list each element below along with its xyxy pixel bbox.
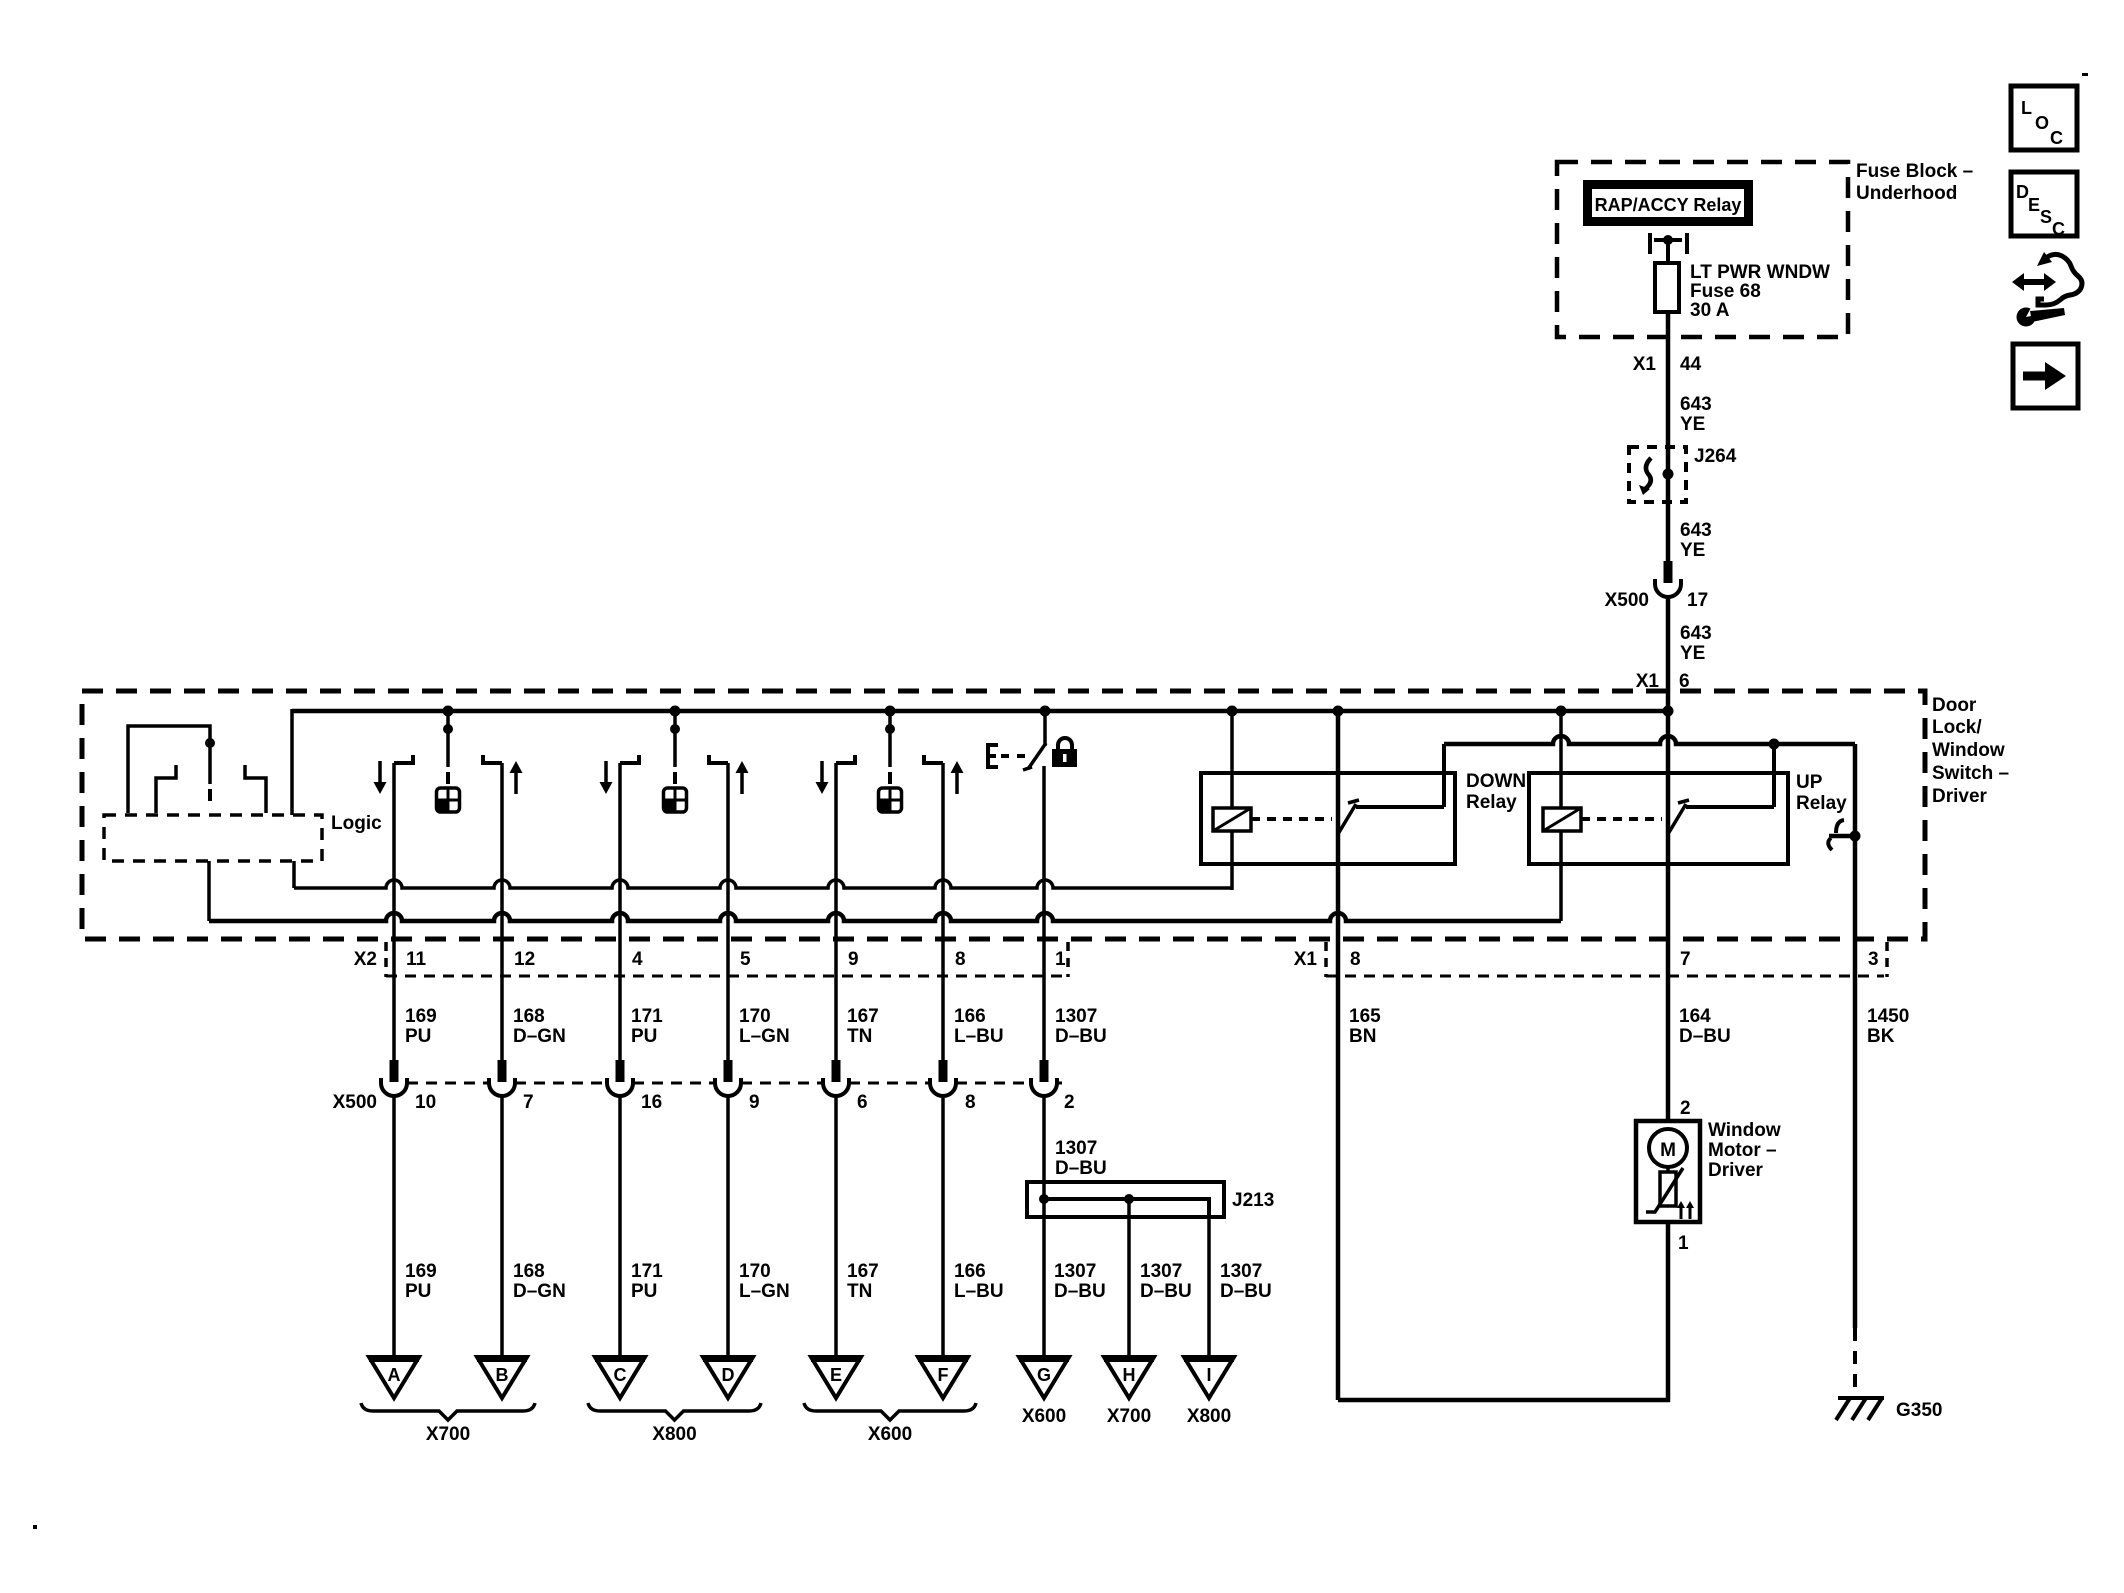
svg-text:1307: 1307 — [1140, 1261, 1182, 1282]
svg-text:E: E — [830, 1365, 842, 1385]
relay UP link (dashed) — [1581, 817, 1662, 821]
svg-text:I: I — [1206, 1365, 1211, 1385]
connector X500 pin 17 — [1605, 561, 1709, 611]
svg-text:LT PWR WNDW: LT PWR WNDW — [1690, 262, 1830, 283]
svg-text:1: 1 — [1055, 949, 1066, 970]
svg-text:X700: X700 — [1107, 1406, 1151, 1427]
svg-text:E: E — [2028, 195, 2040, 215]
switch window E/F down contact — [836, 755, 855, 763]
labels X600 X700 X800 under G H I — [1022, 1406, 1231, 1427]
svg-text:12: 12 — [514, 949, 535, 970]
svg-text:Driver: Driver — [1708, 1160, 1764, 1181]
svg-text:D: D — [722, 1365, 735, 1385]
terminal triangle A — [369, 1357, 419, 1398]
svg-text:L–BU: L–BU — [954, 1281, 1004, 1302]
terminal triangle F — [918, 1357, 968, 1398]
svg-text:166: 166 — [954, 1261, 986, 1282]
relay UP box — [1529, 773, 1788, 864]
svg-text:D–GN: D–GN — [513, 1026, 566, 1047]
labels wires 169 PU / 168 D-GN / 171 PU / 170 L-GN / 167 TN / 166 L-BU / 1307 D-BU — [405, 1006, 1107, 1047]
relay DOWN box — [1201, 773, 1455, 864]
wire 643 YE fuse to J264 — [1666, 312, 1671, 561]
wire switch C/D down output — [618, 763, 622, 1060]
relay UP contact blade — [1668, 800, 1689, 834]
svg-text:168: 168 — [513, 1006, 545, 1027]
svg-text:44: 44 — [1680, 354, 1702, 375]
splice J264 — [1629, 446, 1737, 502]
svg-text:D–BU: D–BU — [1679, 1026, 1731, 1047]
svg-text:7: 7 — [1680, 949, 1691, 970]
brace X600 — [804, 1403, 976, 1445]
wire 1307 D-BU J213 to triangle H — [1127, 1199, 1131, 1357]
arrow up — [736, 761, 749, 794]
svg-text:Motor –: Motor – — [1708, 1140, 1777, 1161]
connector X1 row — [1294, 942, 1887, 977]
wire DOWN common (165 BN) from bus through pivot to X1-8 — [1333, 706, 1344, 1401]
svg-text:Window: Window — [1708, 1120, 1781, 1141]
relay UP contact to riser — [1686, 744, 1774, 807]
icon DESC — [2011, 172, 2077, 239]
svg-text:TN: TN — [847, 1026, 872, 1047]
svg-text:7: 7 — [523, 1092, 534, 1113]
wire bus to logic — [290, 709, 294, 815]
label DOWN Relay — [1466, 771, 1526, 813]
svg-text:X1: X1 — [1294, 949, 1318, 970]
relay UP coil — [1543, 808, 1581, 831]
svg-text:Relay: Relay — [1796, 793, 1847, 814]
svg-text:Lock/: Lock/ — [1932, 717, 1982, 738]
svg-text:D–BU: D–BU — [1055, 1026, 1107, 1047]
svg-text:PU: PU — [631, 1281, 657, 1302]
arrow up — [510, 761, 523, 794]
wire DOWN coil to logic line — [1230, 831, 1234, 890]
svg-text:643: 643 — [1680, 623, 1712, 644]
label UP Relay — [1796, 772, 1847, 814]
svg-text:C: C — [2050, 128, 2063, 148]
label wire 1307 D-BU (above J213) — [1055, 1138, 1107, 1179]
wire 1307 D-BU X500-2 to J213 and triangle G — [1042, 1096, 1046, 1357]
terminal triangle E — [811, 1357, 861, 1398]
stray dot bottom left — [33, 1525, 37, 1529]
svg-text:Driver: Driver — [1932, 786, 1988, 807]
svg-text:M: M — [1660, 1140, 1676, 1161]
svg-text:DOWN: DOWN — [1466, 771, 1526, 792]
svg-text:PU: PU — [405, 1281, 431, 1302]
svg-text:1: 1 — [1678, 1233, 1689, 1254]
svg-text:9: 9 — [749, 1092, 760, 1113]
wire lock switch output — [1042, 766, 1046, 1060]
wire UP coil to logic line — [1559, 831, 1563, 921]
wire switch E/F down output — [834, 763, 838, 1060]
switch lock (window lockout) — [988, 706, 1051, 771]
relay DOWN link (dashed) — [1251, 817, 1332, 821]
svg-text:11: 11 — [406, 949, 427, 970]
connector X2 row — [354, 942, 1068, 977]
svg-text:1450: 1450 — [1867, 1006, 1909, 1027]
svg-text:Switch –: Switch – — [1932, 763, 2009, 784]
wire switch E/F up output — [941, 763, 945, 1060]
svg-text:TN: TN — [847, 1281, 872, 1302]
wire logic output 2 (to UP relay coil) — [209, 861, 1561, 921]
wires A-F from X500 to terminals — [394, 1096, 943, 1357]
svg-text:167: 167 — [847, 1006, 879, 1027]
label wire 643 YE (lower) — [1680, 623, 1712, 664]
connector X2 pin labels 11 12 4 5 9 8 1 — [406, 949, 1066, 970]
svg-text:RAP/ACCY Relay: RAP/ACCY Relay — [1595, 195, 1742, 215]
svg-text:YE: YE — [1680, 540, 1705, 561]
svg-text:8: 8 — [955, 949, 966, 970]
svg-text:X2: X2 — [354, 949, 377, 970]
connector X1 pin labels 8 7 3 — [1350, 949, 1879, 970]
terminal triangle G — [1019, 1357, 1069, 1398]
svg-text:B: B — [496, 1365, 509, 1385]
svg-text:X700: X700 — [426, 1424, 470, 1445]
svg-text:10: 10 — [415, 1092, 436, 1113]
wire relay commons to ground riser — [1444, 736, 1855, 750]
stray mark top right — [2082, 73, 2088, 76]
fuse tap bracket from relay — [1650, 233, 1687, 254]
arrow up — [951, 761, 964, 794]
svg-text:164: 164 — [1679, 1006, 1711, 1027]
svg-text:169: 169 — [405, 1006, 437, 1027]
svg-text:BN: BN — [1349, 1026, 1376, 1047]
svg-text:X500: X500 — [333, 1092, 377, 1113]
arrow down — [374, 761, 387, 794]
svg-text:J213: J213 — [1232, 1190, 1274, 1211]
svg-text:F: F — [938, 1365, 949, 1385]
icon vehicle with arrows and wrench — [2012, 252, 2082, 327]
svg-text:YE: YE — [1680, 414, 1705, 435]
label wire 643 YE (mid) — [1680, 520, 1712, 561]
svg-text:D–BU: D–BU — [1055, 1158, 1107, 1179]
svg-text:D–BU: D–BU — [1054, 1281, 1106, 1302]
svg-text:YE: YE — [1680, 643, 1705, 664]
wire DOWN coil feed from bus — [1227, 706, 1238, 809]
switch window C/D up contact — [709, 755, 728, 763]
wire UP common (164 D-BU) bus through pivot down to motor — [1666, 711, 1671, 1121]
svg-text:643: 643 — [1680, 520, 1712, 541]
switch window C/D down contact — [620, 755, 639, 763]
relay DOWN contact blade — [1338, 800, 1359, 834]
case ground hook inside switch — [1828, 820, 1860, 850]
brace X700 — [361, 1403, 535, 1445]
svg-text:165: 165 — [1349, 1006, 1381, 1027]
svg-text:166: 166 — [954, 1006, 986, 1027]
connector X500 row — [333, 1083, 1062, 1113]
terminal triangle D — [703, 1357, 753, 1398]
svg-text:Door: Door — [1932, 695, 1977, 716]
svg-text:2: 2 — [1680, 1098, 1691, 1119]
label Fuse Block - Underhood — [1856, 161, 1973, 204]
svg-text:H: H — [1123, 1365, 1136, 1385]
connector X500 pin labels 10 7 16 9 6 8 2 — [415, 1092, 1075, 1113]
connector X1 pin 44 — [1633, 354, 1702, 375]
svg-text:168: 168 — [513, 1261, 545, 1282]
wire 165 BN bottom run to motor — [1338, 1398, 1670, 1403]
svg-text:8: 8 — [1350, 949, 1361, 970]
svg-text:30 A: 30 A — [1690, 300, 1730, 321]
relay DOWN contact to riser — [1356, 744, 1444, 807]
svg-text:D–BU: D–BU — [1140, 1281, 1192, 1302]
svg-text:5: 5 — [740, 949, 751, 970]
svg-text:1307: 1307 — [1054, 1261, 1096, 1282]
fuse block underhood (dashed enclosure) — [1557, 162, 1848, 337]
svg-text:Fuse 68: Fuse 68 — [1690, 281, 1761, 302]
svg-text:L: L — [2021, 98, 2032, 118]
svg-text:6: 6 — [857, 1092, 868, 1113]
svg-text:Underhood: Underhood — [1856, 183, 1957, 204]
ground G350 — [1836, 1398, 1942, 1421]
wire 1450 BK riser to X1-3 — [1853, 744, 1858, 1328]
terminal triangle C — [595, 1357, 645, 1398]
junction bus to X1-6 wire — [1663, 706, 1674, 717]
wire UP coil feed from bus — [1556, 706, 1567, 809]
svg-text:167: 167 — [847, 1261, 879, 1282]
wire switch E/F common from bus — [885, 706, 896, 785]
door lock switch linkage (left) — [128, 726, 266, 813]
icon window A/B — [437, 788, 460, 812]
relay DOWN coil — [1213, 808, 1251, 831]
icon window C/D — [664, 788, 687, 812]
wire switch A/B up output — [500, 763, 504, 1060]
wire 1450 BK dashed segment — [1853, 1328, 1857, 1394]
svg-text:D–BU: D–BU — [1220, 1281, 1272, 1302]
svg-text:X600: X600 — [868, 1424, 912, 1445]
fuse 68 LT PWR WNDW 30 A — [1655, 262, 1830, 321]
svg-text:171: 171 — [631, 1006, 663, 1027]
terminal triangle H — [1104, 1357, 1154, 1398]
switch window A/B down contact — [394, 755, 413, 763]
svg-text:169: 169 — [405, 1261, 437, 1282]
svg-text:X800: X800 — [1187, 1406, 1231, 1427]
relay RAP/ACCY — [1583, 180, 1753, 226]
svg-text:Relay: Relay — [1466, 792, 1517, 813]
svg-text:8: 8 — [965, 1092, 976, 1113]
module Door Lock/Window Switch - Driver (dashed box) — [82, 691, 1925, 939]
svg-text:X500: X500 — [1605, 590, 1649, 611]
svg-text:G: G — [1037, 1365, 1051, 1385]
svg-text:L–BU: L–BU — [954, 1026, 1004, 1047]
icon padlock — [1052, 738, 1077, 767]
arrow down — [600, 761, 613, 794]
svg-text:L–GN: L–GN — [739, 1026, 790, 1047]
connector X500 terminals — [381, 1060, 1057, 1096]
svg-text:3: 3 — [1868, 949, 1879, 970]
svg-text:643: 643 — [1680, 394, 1712, 415]
wire relay tap to fuse — [1666, 240, 1670, 263]
icon LOC — [2011, 86, 2077, 150]
icon arrow next — [2013, 344, 2078, 408]
svg-text:L–GN: L–GN — [739, 1281, 790, 1302]
connector X1 pin 6 — [1636, 671, 1690, 692]
svg-text:G350: G350 — [1896, 1400, 1942, 1421]
wire logic output 1 (to DOWN relay coil) — [294, 861, 1232, 888]
arrow down — [816, 761, 829, 794]
svg-text:4: 4 — [632, 949, 643, 970]
wire 643 YE X500 to switch X1-6 — [1666, 597, 1671, 711]
wire motor pin1 down — [1666, 1222, 1671, 1402]
svg-text:170: 170 — [739, 1006, 771, 1027]
svg-text:PU: PU — [405, 1026, 431, 1047]
splice pack J213 — [1027, 1182, 1274, 1217]
wire switch C/D common from bus — [670, 706, 681, 785]
svg-text:PU: PU — [631, 1026, 657, 1047]
svg-text:X800: X800 — [652, 1424, 696, 1445]
labels lower wires — [405, 1261, 1272, 1302]
svg-text:J264: J264 — [1694, 446, 1737, 467]
terminal triangle B — [477, 1357, 527, 1398]
svg-text:O: O — [2035, 113, 2049, 133]
svg-text:171: 171 — [631, 1261, 663, 1282]
wire switch A/B down output — [392, 763, 396, 1060]
svg-text:A: A — [388, 1365, 401, 1385]
brace X800 — [588, 1403, 761, 1445]
svg-text:16: 16 — [641, 1092, 662, 1113]
svg-text:170: 170 — [739, 1261, 771, 1282]
svg-text:Logic: Logic — [331, 813, 382, 834]
labels wires 165 BN / 164 D-BU / 1450 BK — [1349, 1006, 1909, 1047]
svg-text:C: C — [2052, 219, 2065, 239]
switch window A/B up contact — [483, 755, 502, 763]
bus wire (battery feed inside switch) — [292, 709, 1670, 714]
svg-text:9: 9 — [848, 949, 859, 970]
svg-text:X600: X600 — [1022, 1406, 1066, 1427]
wire switch C/D up output — [726, 763, 730, 1060]
terminal triangle I — [1184, 1357, 1234, 1398]
label Window Motor - Driver — [1708, 1120, 1781, 1181]
svg-text:Window: Window — [1932, 740, 2005, 761]
svg-text:1307: 1307 — [1220, 1261, 1262, 1282]
label Door Lock/ Window Switch - Driver — [1932, 695, 2009, 807]
svg-text:S: S — [2040, 207, 2052, 227]
svg-text:BK: BK — [1867, 1026, 1895, 1047]
svg-text:D–GN: D–GN — [513, 1281, 566, 1302]
svg-text:Fuse Block –: Fuse Block – — [1856, 161, 1973, 182]
wire switch A/B common from bus — [443, 706, 454, 785]
label wire 643 YE (upper) — [1680, 394, 1712, 435]
motor Window Motor - Driver — [1636, 1121, 1700, 1222]
svg-text:1307: 1307 — [1055, 1138, 1097, 1159]
svg-text:1307: 1307 — [1055, 1006, 1097, 1027]
svg-text:C: C — [614, 1365, 627, 1385]
switch window E/F up contact — [924, 755, 943, 763]
icon window E/F — [879, 788, 902, 812]
svg-text:2: 2 — [1064, 1092, 1075, 1113]
wire 1307 D-BU J213 to triangle I — [1207, 1217, 1211, 1357]
svg-text:UP: UP — [1796, 772, 1823, 793]
svg-text:X1: X1 — [1633, 354, 1657, 375]
logic block — [104, 813, 382, 861]
svg-text:17: 17 — [1687, 590, 1708, 611]
